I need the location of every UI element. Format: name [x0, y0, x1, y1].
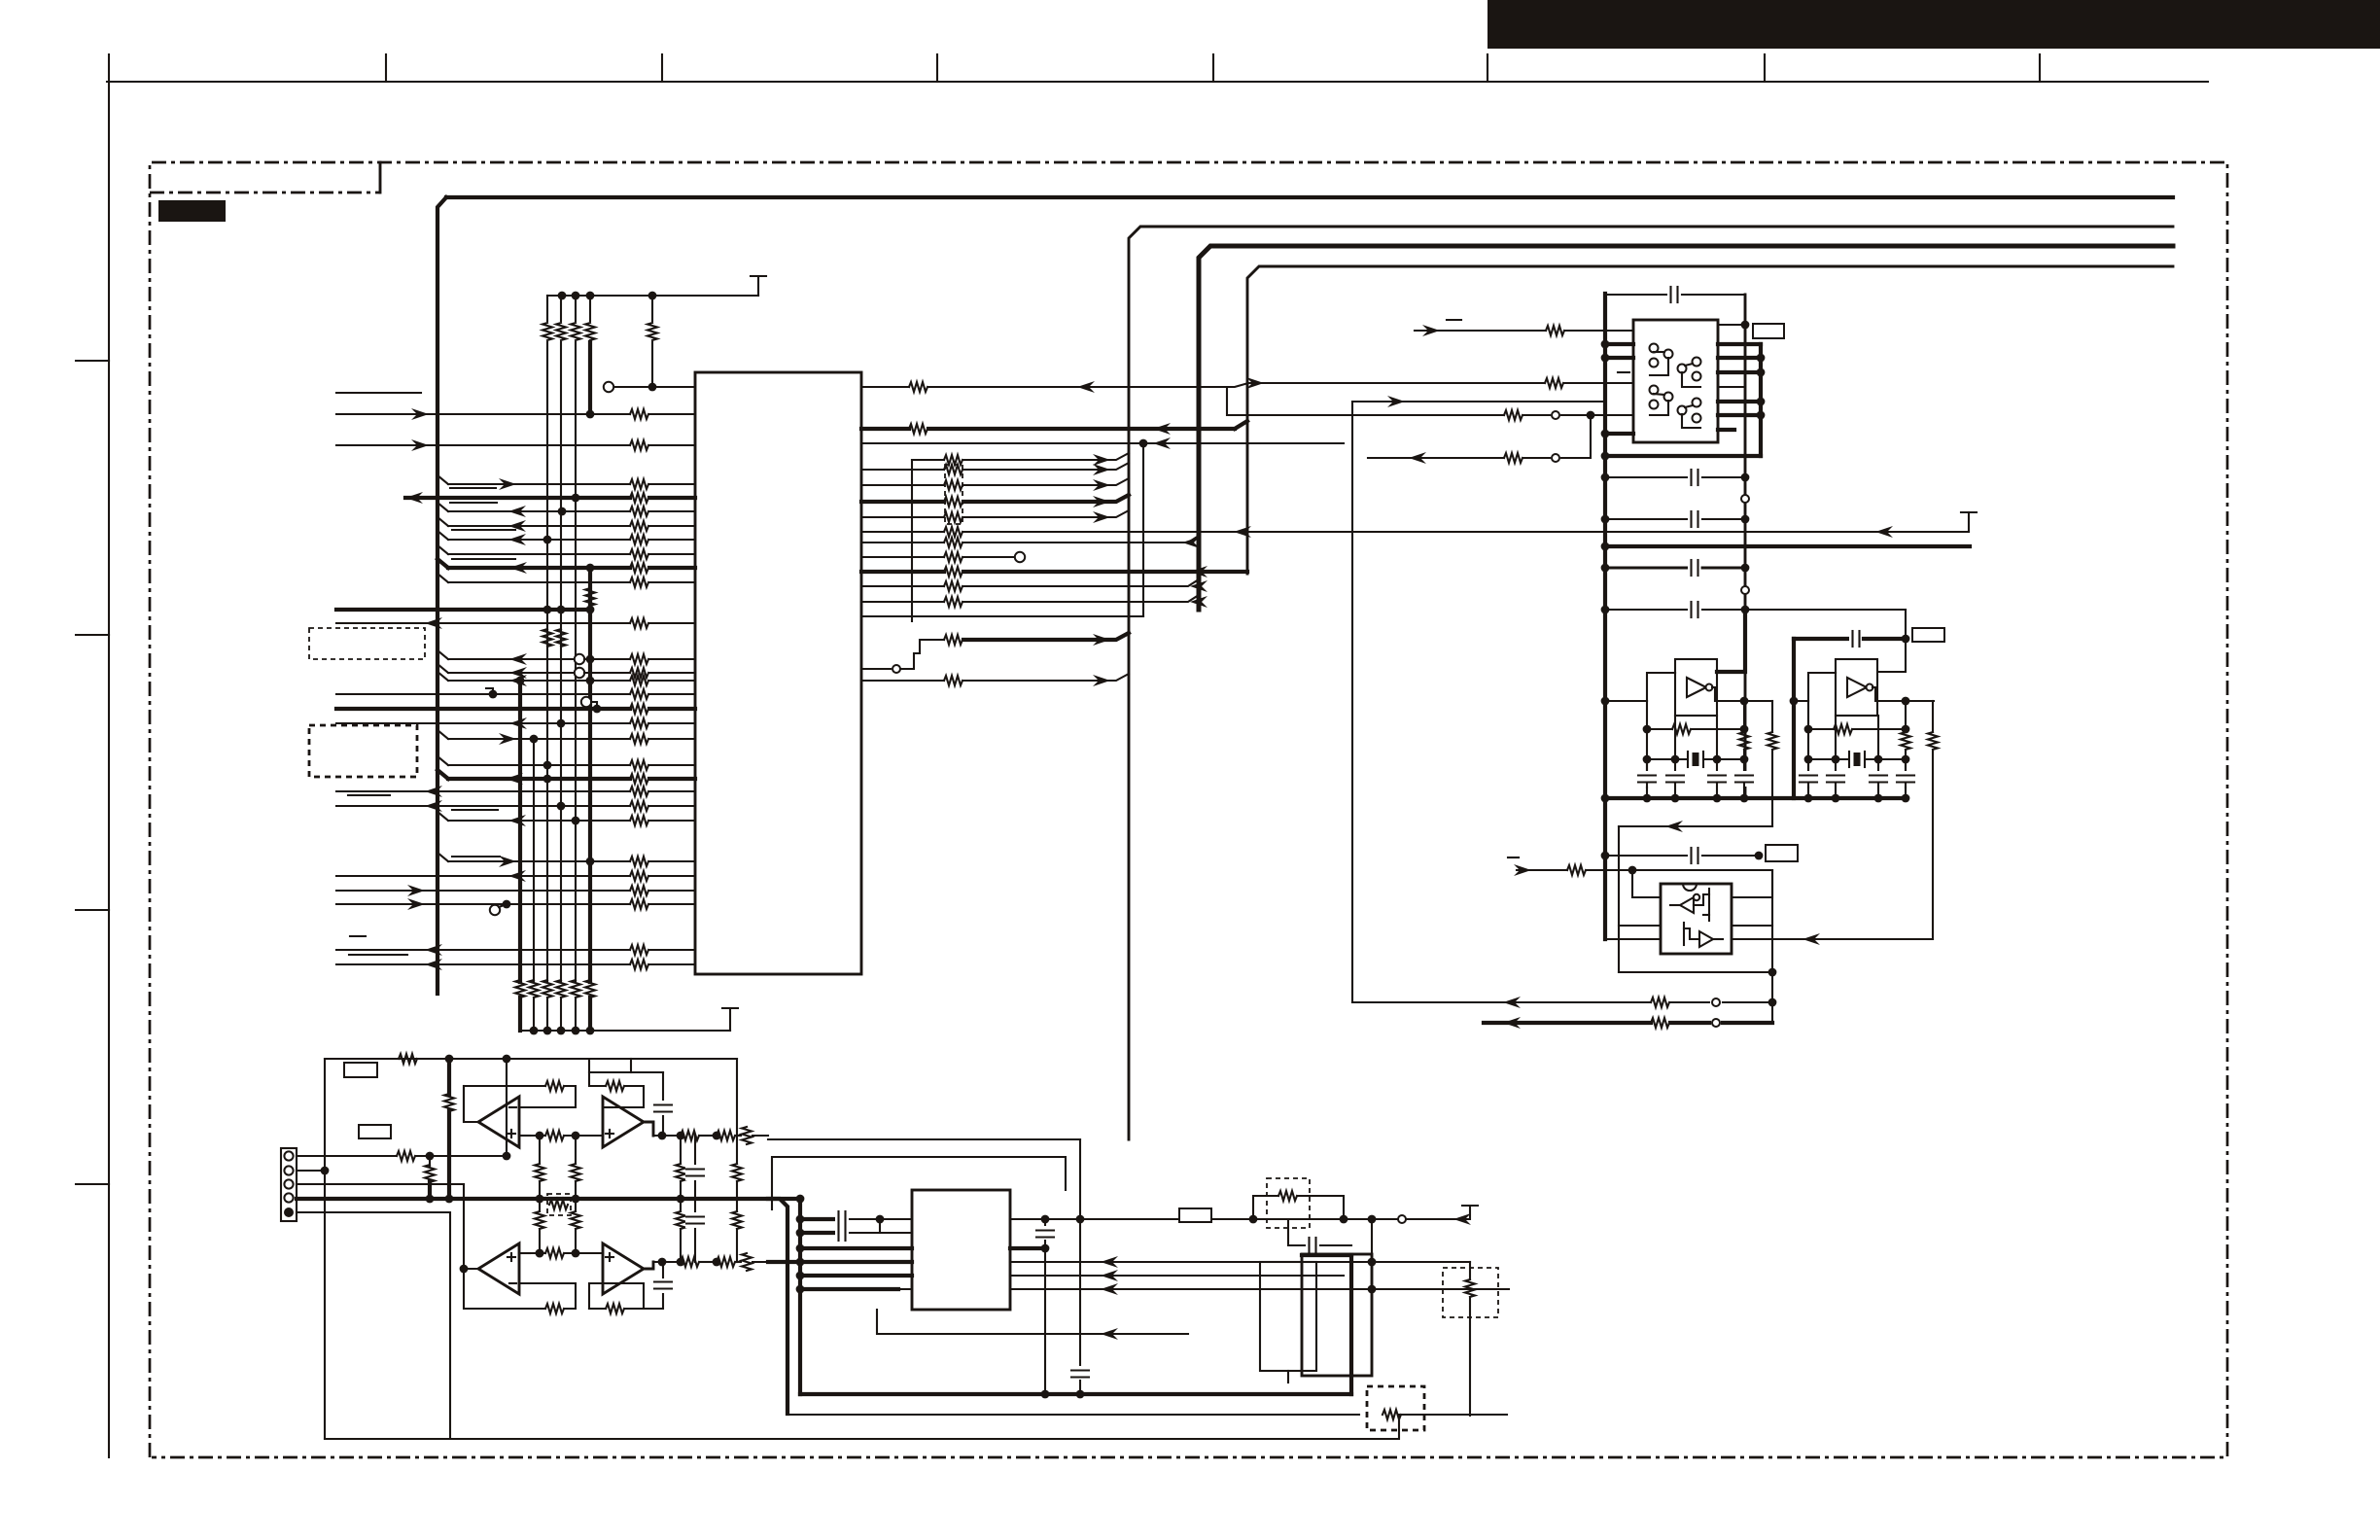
varistor pin1 to bus — [429, 1156, 431, 1166]
junction bottom bus — [543, 1027, 552, 1035]
vertical resistor col x758 lower — [736, 1199, 738, 1211]
opamp rail drop x758 — [736, 1059, 738, 1136]
opamp A3 (lower-left, mirrored) — [478, 1243, 519, 1294]
wire wh — [437, 756, 448, 765]
vertical x1665 down — [1618, 826, 1620, 972]
wire w19 — [336, 890, 630, 892]
A1 output to A2 input rail — [463, 1086, 465, 1122]
relay input branch lower (y427) — [1227, 387, 1504, 415]
inverter U3 inverter gate symbol — [1847, 678, 1867, 697]
bus line B4 (y274) — [1247, 266, 2173, 574]
label overline mosfet input — [1508, 857, 1519, 858]
inverter U2 decoupling caps — [1646, 759, 1648, 774]
wire wb — [437, 664, 448, 673]
mosfet right pin 3 long wire (y966) — [1732, 938, 1933, 940]
relay body box — [1633, 320, 1718, 442]
relay contact group 3 — [1650, 386, 1659, 395]
wire r7 (y516) thick — [861, 500, 944, 504]
arrow wire (y850) — [1619, 825, 1772, 827]
opamp left rail vertical x334 — [324, 1059, 326, 1439]
wire wf — [336, 722, 630, 724]
ruler tick top 5 — [1487, 54, 1488, 82]
wire r13 (y588) thick — [861, 570, 944, 574]
IC2 vertical tap x1111 — [1079, 1219, 1081, 1367]
pull-up resistor R col5 — [575, 296, 577, 321]
inverter U2 gate box — [1675, 659, 1717, 716]
pull-up resistor R col3 — [546, 296, 548, 321]
mosfet left pin 2 — [1619, 925, 1661, 927]
wire w4 — [405, 496, 630, 500]
label box on main wire — [1179, 1208, 1211, 1222]
relay loop wire top (y413) — [1352, 401, 1605, 402]
column resistor col6 mid — [585, 588, 595, 606]
connector pin1 wire — [297, 1155, 397, 1157]
inverter U2 feedback resistor — [1647, 728, 1672, 730]
inverter U2 inverter gate symbol — [1687, 678, 1706, 697]
vertical resistor x1512 — [1469, 1262, 1471, 1279]
wire we — [336, 707, 630, 711]
IC2 pin row 1254 with cap — [800, 1217, 834, 1221]
vertical resistor col x758 upper — [736, 1136, 738, 1164]
inverter U3 gate box — [1836, 659, 1877, 716]
relay contact group 4 — [1678, 406, 1687, 415]
IC2 bottom loop wire (y1372) — [877, 1310, 1188, 1334]
corner down x1111 — [1079, 1139, 1081, 1219]
resistor on column x563 — [542, 980, 552, 997]
vertical resistor col x555 lower — [539, 1199, 541, 1211]
wire w22 — [336, 963, 630, 965]
A1 plus input network — [519, 1135, 530, 1137]
vertical resistor col x700 lower — [680, 1199, 682, 1211]
wire wd — [336, 693, 630, 695]
mosfet left pin 1 — [1632, 870, 1661, 897]
transformer thick top bar — [1302, 1253, 1351, 1257]
dashed box bottom resistor — [1367, 1386, 1424, 1430]
op out top wire to IC2 area (y1172) — [768, 1138, 1080, 1140]
IC2 pin row 1312 thick — [800, 1274, 912, 1277]
C ladder 2 — [1605, 518, 1687, 520]
A2 feedback loop upper — [589, 1059, 631, 1072]
column bottom bus — [520, 1030, 730, 1032]
ruler tick left 3 — [76, 909, 109, 911]
wire w9 — [437, 559, 448, 568]
ruler tick left 4 — [76, 1183, 109, 1185]
label dash w21 — [350, 935, 366, 937]
junction — [558, 292, 567, 300]
IC2 right wire row 1298 — [1010, 1261, 1372, 1263]
bottom thin line (y1455) — [787, 1414, 1359, 1416]
page border ruler left — [108, 54, 110, 1457]
relay pin stub q8 thick — [1718, 428, 1734, 432]
dashed connector box lower-left — [309, 725, 417, 777]
thick bus turn-down at x810 — [768, 1199, 787, 1414]
ruler tick top 7 — [2039, 54, 2041, 82]
wire r5 (y483) — [861, 469, 944, 471]
IC2 right wire row 1326 — [1010, 1288, 1509, 1290]
no-connect hook w20 — [490, 905, 500, 915]
opamp top rail (y1089) — [325, 1058, 737, 1060]
resistor on column x607 — [585, 980, 595, 997]
bridge resistor dashed box — [1267, 1178, 1310, 1228]
ruler tick left 2 — [76, 634, 109, 636]
column resistor col3 mid — [542, 629, 552, 647]
A3 plus input network — [519, 1252, 530, 1254]
vertical resistor col x592 upper — [575, 1136, 577, 1164]
column wire x535 — [518, 681, 522, 982]
connector J1 body — [281, 1148, 297, 1221]
wire w18 — [336, 875, 630, 877]
ferrite bead on x1795 lower — [1741, 586, 1749, 594]
no-connect hook wa — [575, 654, 584, 664]
IC2 pin row 1268 with cap — [800, 1231, 834, 1235]
dashed resistor box on bus — [547, 1194, 571, 1215]
wire r12 (y573) to NC circle — [861, 556, 944, 558]
no-connect circle and wire to IC pin (y398) — [604, 382, 613, 392]
C ladder 3 — [1605, 567, 1687, 570]
relay contact group 2 — [1678, 365, 1687, 373]
A2 output network (y1168) — [653, 1135, 678, 1137]
ruler tick top 6 — [1764, 54, 1766, 82]
A2 top rail corner — [630, 1059, 632, 1072]
wire r11 (y558) — [861, 542, 944, 543]
relay contact group 1 — [1650, 344, 1659, 353]
right branch wire (y1298) — [1372, 1219, 1470, 1262]
mosfet right pin 1 — [1732, 870, 1772, 897]
wire w12 — [336, 622, 630, 624]
wire r6 (y499) — [861, 484, 944, 486]
wire r8 (y532) — [861, 516, 944, 518]
thermistor on thick vertical x462 — [447, 1059, 451, 1095]
return wire thin (y1031) — [1352, 1001, 1651, 1003]
pull-up resistor R col4 — [560, 296, 562, 321]
main IC U1 body — [695, 372, 861, 974]
relay pin stub q5 — [1718, 386, 1745, 388]
relay inner vertical thick x1811 — [1759, 344, 1763, 456]
relay pin stub q1 — [1718, 324, 1745, 326]
ferrite bead on x1795 upper — [1741, 495, 1749, 503]
inverter U3 feedback resistor — [1808, 728, 1834, 730]
relay top cap wire — [1605, 294, 1666, 296]
relay pin stub q3 thick — [1718, 356, 1761, 360]
cap tie vertical x905 — [879, 1219, 881, 1233]
ruler tick left 1 — [76, 360, 109, 362]
wire w15 — [336, 805, 630, 807]
label box B — [359, 1125, 391, 1138]
inverter U2 input wire — [1605, 700, 1647, 702]
mosfet driver input wire (y895) — [1517, 869, 1567, 871]
inverter U3 cap row (y657) — [1794, 637, 1848, 641]
IC2 right wire row 1312 — [1010, 1275, 1344, 1277]
inverter U2 output wire — [1717, 700, 1772, 702]
ruler tick top 3 — [936, 54, 938, 82]
varistor symbol out top — [742, 1127, 752, 1144]
thick rail (y562) — [1605, 544, 1970, 548]
stub vertical x938 — [911, 460, 913, 621]
power bus top horizontal — [446, 195, 2173, 199]
label overline relay input — [1447, 319, 1461, 321]
wire w20 — [336, 903, 630, 905]
inverter U3 output wire — [1878, 700, 1934, 702]
mosfet block body — [1661, 884, 1732, 954]
pull-up resistor R5 (x671) — [651, 296, 653, 321]
ruler tick top 2 — [661, 54, 663, 82]
wire w2 — [336, 444, 630, 446]
relay pin stub q7 thick — [1718, 413, 1761, 417]
wire wc — [437, 672, 448, 681]
junction bottom bus — [557, 1027, 566, 1035]
pull-up bus top — [547, 295, 758, 297]
wire r17 (y658) thick stepped — [861, 668, 891, 670]
wire wg — [437, 730, 448, 739]
A1 feedback loop — [464, 1086, 545, 1122]
ruler tick top 4 — [1212, 54, 1214, 82]
inverter U2 crystal X — [1647, 758, 1687, 760]
relay loop left vertical x1391 — [1351, 402, 1353, 1002]
connector pin4 wire = main audio bus thick — [297, 1197, 800, 1201]
resistor on column x549 — [529, 980, 539, 997]
inverter U3 right tap x1989 — [1932, 701, 1934, 732]
inverter U2 inner-left vertical — [1646, 701, 1648, 787]
dashed resistor box right — [1443, 1268, 1498, 1317]
relay right vertical x1795 — [1744, 295, 1747, 798]
vertical resistor col x700 upper — [680, 1136, 682, 1164]
vertical x1823 lower — [1771, 870, 1773, 1023]
wire w10 — [437, 574, 448, 582]
relay pin stub p2 — [1605, 356, 1633, 360]
A4 out cap — [644, 1294, 663, 1309]
terminator T bottom of column bus — [729, 1008, 731, 1031]
board outline notch segment — [150, 192, 380, 194]
dashed connector box upper-left — [309, 628, 425, 659]
relay pin stub q6 thick — [1718, 400, 1761, 403]
transformer box B thick — [1302, 1254, 1372, 1376]
resistor on column x577 — [556, 980, 566, 997]
mosfet left pin 3 — [1605, 938, 1661, 940]
bus line B3 (y253) thick — [1199, 246, 2173, 610]
A2 out cap to feedback — [662, 1072, 664, 1100]
transformer bottom stub — [1287, 1371, 1289, 1382]
IC2 stub row 1284 right — [1010, 1246, 1045, 1250]
terminator T top-left — [757, 276, 759, 296]
hook wd — [486, 688, 493, 694]
opamp A4 (lower-right) — [603, 1243, 644, 1294]
no-connect hook we — [581, 697, 591, 707]
power bus left vertical — [437, 197, 446, 994]
page border ruler top — [107, 81, 2208, 83]
resistor on column x592 — [571, 980, 580, 997]
wire w14 — [336, 790, 630, 792]
inverter U2 top-right feed — [1717, 610, 1745, 672]
A2 output node — [644, 1122, 653, 1136]
opamp A2 (upper-right) — [603, 1097, 644, 1147]
wire w16 — [437, 812, 448, 821]
wire r14 (y603) — [861, 585, 944, 587]
mosfet right pin 2 — [1732, 925, 1772, 927]
IC2 pin row 1298 thick — [768, 1260, 912, 1264]
no-connect hook wb — [575, 668, 584, 678]
A4 output node — [644, 1262, 653, 1269]
wire w17 — [437, 853, 448, 861]
varistor symbol out bottom — [742, 1253, 752, 1271]
wire w7 — [437, 531, 448, 540]
wire w3 — [437, 475, 448, 484]
wire r16 (y634) — [861, 615, 1143, 617]
relay pin tick p3 — [1618, 371, 1629, 373]
connector pin2 wire — [297, 1170, 325, 1172]
connector pin5 wire — [297, 1212, 450, 1439]
IC2 vertical tap x1075 — [1044, 1219, 1046, 1227]
terminator T right (y527) — [1968, 512, 1970, 532]
column wire x607 — [588, 568, 592, 982]
inverter U2 input stub — [1662, 672, 1675, 674]
inverter U2 tap vertical x1823 — [1771, 701, 1773, 732]
relay K1 input wire (y340) — [1415, 330, 1546, 332]
IC2 pin row 1326 thick — [800, 1287, 898, 1291]
wire w5 — [437, 503, 448, 511]
bus line B2 (y233) — [1129, 227, 2173, 1139]
relay input branch upper (y394) — [1227, 383, 1545, 387]
column resistor col4 mid — [556, 629, 566, 647]
C ladder 4 — [1605, 609, 1687, 611]
bridge resistor path — [1253, 1196, 1278, 1219]
wire r18 (y700) — [861, 680, 944, 682]
A4 feedback loop lower — [589, 1283, 603, 1309]
pull-up resistor R col6 — [589, 296, 591, 321]
junction bottom bus — [586, 1027, 595, 1035]
vertical resistor col x555 upper — [539, 1136, 541, 1164]
vertical resistor col x592 lower — [575, 1199, 577, 1211]
board name black label — [158, 200, 226, 222]
wire r15 (y619) — [861, 601, 944, 603]
vertical cap col x715 upper — [694, 1136, 696, 1164]
connector pin3 wire — [297, 1183, 464, 1185]
inverter U3 resistor vertical right — [1905, 701, 1907, 732]
transformer box A — [1260, 1262, 1316, 1371]
mosfet Q1 symbol — [1680, 897, 1694, 913]
relay reference label box — [1753, 324, 1784, 338]
A3 input from pin3 — [463, 1184, 465, 1269]
cap row transformer — [1288, 1219, 1305, 1245]
label box A — [344, 1063, 377, 1077]
relay pin stub p5 — [1605, 432, 1633, 436]
junction — [648, 292, 657, 300]
thick ground bus (y821) — [1605, 796, 1907, 800]
wire r10 (y547) long to terminator — [861, 531, 944, 533]
A4 output network (y1298) — [653, 1261, 678, 1263]
wire wa — [437, 650, 448, 659]
dashed box around resistor bank — [945, 465, 962, 524]
thick stub rail x823 — [798, 1199, 802, 1394]
wire w1 — [336, 413, 630, 415]
relay pin stub q2 thick — [1718, 342, 1761, 346]
inverter U3 inner-left vertical — [1807, 701, 1809, 787]
A3 feedback loop — [464, 1269, 545, 1309]
inverter U3 crystal X — [1808, 758, 1848, 760]
junction bottom bus — [572, 1027, 580, 1035]
return wire thick (y1052) — [1484, 1021, 1651, 1025]
junction bottom bus — [530, 1027, 539, 1035]
junction — [586, 292, 595, 300]
wire r4 (y473) — [912, 459, 944, 461]
mosfet bottom loop (y1000) — [1619, 971, 1772, 973]
column wire x549 — [533, 739, 535, 982]
wire r1 (y398) from IC to relay input — [861, 386, 909, 388]
bottom thick bus (y1434) — [800, 1392, 1351, 1396]
wire y627 drop to inverter2 — [1878, 610, 1906, 672]
C ladder 1 — [1605, 476, 1687, 478]
inverter U3 input wire — [1794, 700, 1808, 702]
wire r3 (y456) — [861, 442, 1344, 444]
inverter U3 decoupling caps — [1807, 759, 1809, 774]
IC2 right wire main (y1254) — [1010, 1218, 1408, 1220]
wire r2 (y441) thick to bus3 — [861, 427, 909, 431]
wire w21 — [336, 949, 630, 951]
bead and terminator on main wire — [1408, 1218, 1464, 1220]
vertical x521 — [506, 1059, 507, 1156]
transformer thick vertical x1390 — [1349, 1255, 1353, 1394]
inverter U3 input stub — [1822, 672, 1836, 674]
wire w6 — [437, 517, 448, 526]
junction — [648, 383, 657, 392]
ruler tick top 1 — [385, 54, 387, 82]
relay vertical left thick x1651 — [1603, 294, 1607, 939]
wire w13 — [437, 770, 448, 779]
relay return wire (y471) — [1368, 457, 1504, 459]
inverter U2 resistor vertical right — [1743, 701, 1745, 732]
mosfet Q2 symbol — [1699, 931, 1713, 947]
title block black banner — [1487, 0, 2380, 49]
bottom return line (y1480) — [325, 1415, 1399, 1439]
board outline dash-dot border — [150, 162, 2227, 1457]
wire w11 — [336, 608, 590, 612]
inverter U3 label box — [1912, 628, 1944, 642]
wire w8 — [437, 545, 448, 554]
mosfet cap row (y880) — [1605, 855, 1687, 857]
connector pins — [284, 1151, 293, 1160]
tap vertical x1176 — [1142, 443, 1144, 616]
inverter U3 left vertical thick — [1792, 639, 1796, 798]
junction — [572, 292, 580, 300]
relay pin stub p1 — [1605, 342, 1633, 346]
resistor on column x535 — [515, 980, 525, 997]
IC2 pin row 1284 thick — [800, 1246, 912, 1250]
relay return bus thick (y469) — [1605, 454, 1761, 458]
opamp A1 (upper-left, mirrored) — [478, 1097, 519, 1147]
vertical cap col x715 lower — [694, 1199, 696, 1211]
mosfet label box — [1766, 845, 1798, 861]
relay pin stub q4 thick — [1718, 370, 1761, 374]
IC2 top loop — [772, 1157, 1066, 1209]
IC2 body — [912, 1190, 1010, 1310]
